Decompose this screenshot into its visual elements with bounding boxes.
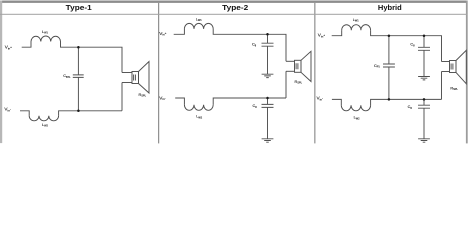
capacitor C_s top plates (Hybrid): [418, 47, 430, 50]
table left border: [0, 1, 2, 144]
svg-text:Hybrid: Hybrid: [378, 3, 402, 12]
wire cap C_s bottom to ground (Hybrid): [423, 108, 425, 139]
column divider 2: [314, 3, 315, 144]
table top border: [0, 1, 467, 3]
junction node dots: [77, 33, 425, 112]
wire cap C_s bottom to ground (Type-2): [267, 107, 269, 138]
wire bottom-right corner up to speaker: [121, 83, 123, 111]
node bottom CP1 junction (Hybrid): [388, 98, 391, 101]
wire Vin+ to inductor LW1 (Type-2): [174, 29, 185, 34]
wire inductor LW2 to bottom-right corner (Type-2): [213, 98, 286, 105]
wire Vin- to inductor LW2: [20, 111, 29, 116]
wire Vin- to inductor LW2 (Type-2): [175, 98, 184, 105]
inductor L_W2 (Type-1): [29, 116, 58, 121]
capacitor C_BTL vertical wire top (Type-1): [77, 47, 79, 75]
speaker stub bottom (Type-1): [122, 82, 132, 84]
svg-text:LW1: LW1: [42, 30, 48, 35]
capacitor C_s bottom vertical wire (Type-2): [267, 98, 269, 104]
wire cap C_s top to ground (Type-2): [267, 46, 269, 74]
speaker R_SPL (Type-1): [132, 62, 149, 94]
speaker R_SPL (Hybrid): [450, 50, 467, 84]
node top Cs junction (Hybrid): [423, 34, 426, 37]
node top CP1 junction (Hybrid): [388, 34, 391, 37]
speaker stub top (Hybrid): [442, 61, 450, 63]
wire inductor LW2 to bottom-right corner: [59, 111, 122, 116]
capacitor C_s top vertical wire (Hybrid): [423, 36, 425, 48]
capacitor C_BTL vertical wire bottom (Type-1): [77, 77, 79, 110]
wire inductor LW1 to top-right corner: [61, 42, 123, 73]
node bottom cap junction (Type-1): [77, 110, 80, 113]
ground symbol bottom (Hybrid): [418, 139, 430, 142]
capacitor C_P1 vertical wire bottom (Hybrid): [388, 67, 390, 99]
wire Vin- to inductor LW2 (Hybrid): [332, 99, 341, 105]
wire inductor LW1 to top-right corner (Hybrid): [371, 30, 442, 61]
wire Vin+ to inductor LW1 (Hybrid): [332, 30, 342, 36]
wire inductor LW1 to top-right corner (Type-2): [213, 29, 286, 61]
node top cap junction (Type-1): [77, 46, 80, 49]
wire bottom-right corner up to speaker (Type-2): [285, 71, 287, 98]
wire bottom-right corner up to speaker (Hybrid): [441, 72, 443, 100]
header separator line: [0, 14, 467, 15]
capacitor C_P1 vertical wire top (Hybrid): [388, 36, 390, 64]
svg-text:RSPL: RSPL: [295, 80, 303, 85]
ground symbol top (Type-2): [262, 74, 274, 77]
capacitor C_s bottom plates (Hybrid): [418, 105, 430, 108]
wire Vin+ to inductor LW1: [22, 42, 31, 48]
inductor L_W1 (Type-1): [31, 36, 61, 41]
inductor L_W2 (Type-2): [184, 105, 213, 111]
speaker R_SPL (Type-2): [295, 51, 312, 81]
capacitor C_s bottom plates (Type-2): [262, 104, 274, 107]
speaker stub bottom (Hybrid): [442, 71, 450, 73]
speaker stub top (Type-2): [286, 60, 295, 62]
inductor L_W1 (Type-2): [184, 23, 213, 29]
inductor L_W2 (Hybrid): [341, 105, 370, 111]
node top cap junction (Type-2): [266, 33, 269, 36]
svg-text:Type-2: Type-2: [222, 3, 248, 12]
wire inductor LW2 to bottom-right corner (Hybrid): [371, 99, 442, 105]
svg-text:RSPL: RSPL: [139, 93, 147, 98]
capacitor C_s top plates (Type-2): [262, 43, 274, 46]
table right border: [466, 1, 468, 144]
svg-text:Type-1: Type-1: [66, 3, 92, 12]
wire cap C_s top to ground (Hybrid): [423, 50, 425, 76]
ground symbol bottom (Type-2): [262, 139, 274, 142]
capacitor C_s top vertical wire (Type-2): [267, 34, 269, 43]
node bottom Cs junction (Hybrid): [423, 98, 426, 101]
component value labels (tiny): [4, 17, 458, 127]
inductor L_W1 (Hybrid): [342, 25, 371, 31]
capacitor C_P1 plates (Hybrid): [383, 64, 395, 67]
node bottom cap junction (Type-2): [266, 97, 269, 100]
capacitor C_BTL plates (Type-1): [73, 75, 84, 78]
ground symbol top (Hybrid): [418, 77, 430, 80]
speaker stub bottom (Type-2): [286, 70, 295, 72]
column divider 1: [158, 3, 159, 144]
speaker stub top (Type-1): [122, 72, 132, 74]
capacitor C_s bottom vertical wire (Hybrid): [423, 99, 425, 105]
